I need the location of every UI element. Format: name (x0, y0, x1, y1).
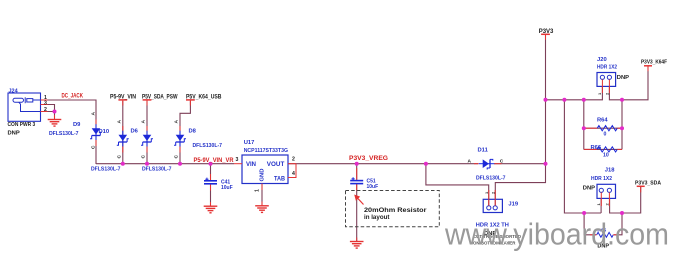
svg-text:DFLS130L-7: DFLS130L-7 (476, 175, 506, 181)
svg-text:2: 2 (44, 107, 47, 113)
svg-text:DFLS130L-7: DFLS130L-7 (193, 143, 223, 149)
wire R64/R66 right rail (621, 100, 623, 150)
svg-text:A: A (91, 112, 97, 116)
svg-text:C: C (500, 159, 504, 165)
diode D8 (174, 126, 186, 153)
J24 sleeve contact (27, 99, 33, 102)
U17 pin 3 stub (234, 163, 242, 165)
svg-text:C: C (141, 155, 147, 159)
svg-text:10uF: 10uF (221, 185, 233, 191)
svg-text:VIN: VIN (246, 162, 256, 168)
svg-text:J20: J20 (597, 57, 607, 63)
ground at U17 (255, 202, 269, 213)
svg-text:D6: D6 (131, 129, 139, 135)
wire C41 to ground (210, 184, 212, 207)
svg-text:P5-9V_VIN: P5-9V_VIN (110, 95, 136, 101)
header J18 (597, 184, 616, 206)
capacitor C51 (350, 168, 363, 190)
wire C41 tap (210, 164, 212, 181)
svg-text:CON PWR 3: CON PWR 3 (8, 122, 36, 128)
wire column 3 (146, 101, 148, 164)
svg-text:D10: D10 (99, 129, 110, 135)
diode D10 (90, 120, 102, 147)
svg-text:VOUT: VOUT (267, 162, 285, 168)
svg-text:4: 4 (292, 171, 295, 177)
power symbol P3V3_K64F (644, 66, 652, 72)
wire J24 pin2 to ground node (48, 112, 55, 120)
resistor R66 (584, 147, 622, 152)
svg-text:DNP: DNP (8, 131, 20, 137)
wire long left vertical to J18 pin1 (564, 100, 601, 213)
svg-text:DNP: DNP (583, 185, 595, 191)
svg-text:A: A (468, 159, 472, 165)
U17 pin 1 stub (261, 184, 263, 191)
power symbol P3V3_SDA (637, 186, 645, 192)
wire J18 pin2 row to P3V3_SDA (610, 187, 641, 213)
header J20 (597, 73, 616, 94)
svg-text:20mOhm Resistor: 20mOhm Resistor (364, 207, 427, 214)
power symbol P5V_SDA_PSW (143, 100, 152, 106)
svg-text:0: 0 (604, 132, 607, 138)
wire R65 loop (584, 213, 596, 235)
svg-text:1: 1 (255, 189, 261, 192)
wire D11 cathode to P3V3 node (494, 163, 546, 165)
J24 pin 3 stub (41, 104, 48, 106)
svg-text:P3V3_SDA: P3V3_SDA (635, 180, 662, 186)
svg-text:10: 10 (603, 153, 609, 159)
wire R64/R66 left rail (583, 100, 585, 150)
svg-text:HDR 1X2: HDR 1X2 (597, 64, 617, 70)
svg-text:J19: J19 (508, 202, 518, 208)
diode D11 (474, 159, 502, 169)
J24 pin 1 stub (41, 99, 48, 101)
svg-text:P3V3_K64F: P3V3_K64F (641, 60, 667, 66)
J24 pin 2 stub (41, 111, 48, 113)
regulator U17 box (242, 155, 288, 184)
svg-text:www.yiboard.com: www.yiboard.com (444, 218, 669, 252)
svg-text:D8: D8 (189, 129, 197, 135)
wire top bus right segment to P3V3_K64F (609, 67, 648, 100)
power symbol P3V3 (541, 34, 550, 40)
svg-text:GND: GND (260, 169, 266, 182)
svg-text:J24: J24 (9, 89, 19, 95)
svg-text:DNP: DNP (617, 75, 629, 81)
svg-text:10uF: 10uF (367, 184, 379, 190)
wire DC_JACK from J24 pin1 down to D10 (48, 100, 97, 164)
svg-text:3: 3 (44, 101, 47, 107)
svg-text:C: C (91, 145, 97, 149)
svg-text:P5V_K64_USB: P5V_K64_USB (186, 95, 222, 101)
svg-text:TAB: TAB (274, 176, 286, 182)
J24 switch contact (19, 102, 41, 111)
svg-text:DC_JACK: DC_JACK (62, 94, 84, 100)
U17 pin 4 stub and riser (288, 164, 296, 178)
svg-text:C: C (174, 155, 180, 159)
ground at C51 (350, 238, 364, 249)
svg-text:R66: R66 (591, 145, 602, 151)
svg-text:DFLS130L-7: DFLS130L-7 (49, 131, 79, 137)
wire R66 row (584, 148, 622, 150)
svg-text:D11: D11 (478, 148, 489, 154)
svg-text:D9: D9 (73, 122, 81, 128)
ground at C41 (204, 202, 218, 213)
wire U17 output rail P3V3_VREG (288, 163, 478, 165)
U17 pin 2 stub (288, 163, 296, 165)
resistor R65 (590, 232, 618, 237)
svg-text:A: A (174, 120, 180, 124)
wire C51 tap down to ground (356, 164, 358, 181)
J24 tick (24, 97, 26, 103)
wire P3V3 vertical (545, 35, 547, 164)
power symbol P5-9V_VIN (118, 100, 127, 106)
resistor R64 (584, 126, 622, 131)
wire J19 pin1 branch (426, 164, 489, 206)
svg-text:P3V3_VREG: P3V3_VREG (349, 156, 388, 162)
svg-text:DFLS130L-7: DFLS130L-7 (142, 167, 172, 173)
wire top bus left segment with J20 pin1 drop (546, 86, 603, 99)
wire J24 pin3 jog (48, 105, 55, 112)
svg-text:NCP1117ST33T3G: NCP1117ST33T3G (244, 148, 288, 154)
J24 barrel pin (13, 98, 24, 102)
wire R64 row (584, 127, 622, 129)
svg-text:A: A (117, 120, 123, 124)
svg-text:P5-9V_VIN_VR: P5-9V_VIN_VR (194, 158, 235, 164)
svg-text:C: C (117, 155, 123, 159)
wire U17 gnd (261, 184, 263, 206)
diode D6 (117, 126, 129, 153)
wire column D8 with jog (180, 101, 190, 164)
wire main rail P5-9V_VIN_VR (96, 163, 234, 165)
wire J18 pin1 stub riser (600, 198, 602, 213)
power symbol P5V_K64_USB (186, 100, 195, 106)
diode column3 (141, 126, 153, 153)
svg-text:2: 2 (292, 157, 295, 163)
svg-text:P3V3: P3V3 (539, 29, 554, 35)
svg-text:J18: J18 (605, 168, 615, 174)
capacitor C41 (204, 174, 217, 191)
svg-text:A: A (141, 120, 147, 124)
svg-text:HDR 1X2: HDR 1X2 (591, 176, 612, 182)
wire column D6 (122, 101, 124, 164)
ground at J24 (54, 115, 56, 119)
svg-text:R64: R64 (597, 118, 608, 124)
svg-text:3: 3 (236, 157, 239, 163)
header J19 (483, 190, 502, 213)
svg-text:in layout: in layout (364, 214, 389, 221)
svg-text:DFLS130L-7: DFLS130L-7 (91, 167, 121, 173)
note box 20mOhm (346, 191, 440, 227)
note arrow (354, 195, 363, 205)
svg-text:U17: U17 (244, 140, 255, 146)
svg-text:P5V_SDA_PSW: P5V_SDA_PSW (142, 95, 178, 101)
wire J19 pin2 branch (495, 164, 545, 206)
connector J24 box (8, 93, 41, 121)
